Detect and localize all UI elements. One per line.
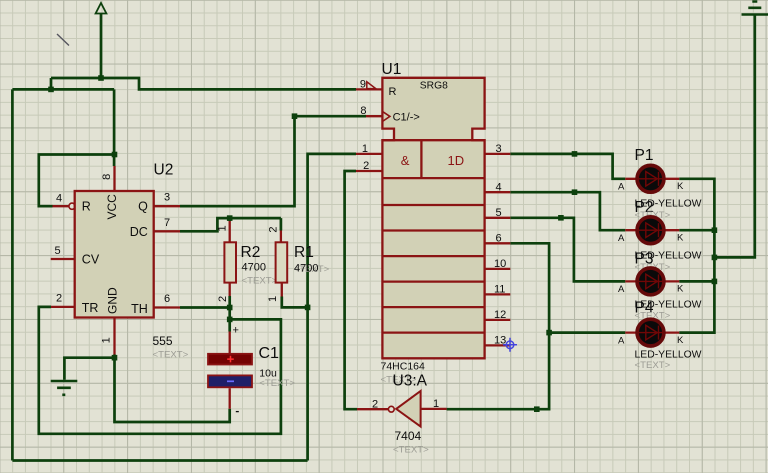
- U1 pin9 edge triangle: [367, 82, 376, 89]
- wire U1 pin5 to LED3 anode: [510, 218, 625, 282]
- wire to 555 pin4 reset: [39, 155, 115, 207]
- svg-text:R2: R2: [241, 244, 261, 261]
- svg-text:7404: 7404: [395, 429, 422, 443]
- wire inverter output to U1 pin2: [345, 171, 357, 409]
- U1 pin numbers: [360, 79, 506, 347]
- wire R2 bottom to C1 top: [228, 308, 231, 332]
- svg-text:2: 2: [268, 226, 280, 232]
- svg-text:A: A: [618, 335, 625, 346]
- svg-text:U3:A: U3:A: [393, 373, 428, 390]
- LED1 body: [637, 165, 664, 192]
- C1 plus plate: [208, 354, 252, 365]
- svg-text:K: K: [677, 232, 684, 243]
- 555 pin numbers: [55, 174, 171, 344]
- svg-text:CV: CV: [82, 253, 100, 267]
- svg-text:R1: R1: [294, 244, 314, 261]
- svg-text:4700: 4700: [294, 263, 318, 275]
- wire left +V rail down: [11, 89, 14, 460]
- svg-text:5: 5: [55, 245, 61, 257]
- LED1 pins: [625, 178, 679, 180]
- svg-text:2: 2: [56, 293, 62, 305]
- wire TH node to TR loop: [39, 307, 281, 434]
- svg-text:C1/->: C1/->: [393, 112, 420, 124]
- 555 pin stubs: [51, 166, 180, 355]
- U3 input stub: [421, 408, 447, 410]
- svg-text:TR: TR: [82, 301, 99, 315]
- no-connect tick mark: [57, 34, 69, 46]
- R2 body: [224, 242, 236, 282]
- wire cathode rail to top ground: [714, 15, 754, 258]
- U1 maroon labels: [389, 81, 449, 124]
- wire 555 GND pin to ground: [64, 355, 114, 380]
- R1 pins: [280, 231, 283, 297]
- ground bottom left: [51, 380, 78, 395]
- LED2 body: [637, 217, 664, 244]
- LED3 pins: [625, 280, 679, 282]
- svg-text:LED-YELLOW: LED-YELLOW: [635, 350, 702, 361]
- U3 triangle: [396, 391, 420, 427]
- svg-text:U2: U2: [154, 162, 174, 179]
- svg-text:1: 1: [362, 143, 368, 155]
- svg-text:K: K: [677, 181, 684, 192]
- wire VCC left branch: [12, 78, 114, 89]
- U3 output stub: [357, 408, 388, 410]
- svg-text:11: 11: [494, 284, 505, 296]
- LED3 body: [637, 268, 664, 295]
- svg-text:6: 6: [164, 293, 170, 305]
- svg-text:A: A: [618, 284, 625, 295]
- wire C1 bottom to GND net: [115, 358, 230, 422]
- svg-text:2: 2: [363, 160, 369, 172]
- wire LED2 cathode: [679, 229, 714, 232]
- svg-text:A: A: [618, 182, 625, 193]
- svg-text:&: &: [401, 153, 410, 168]
- wire VCC to 555 pin8: [113, 89, 116, 166]
- svg-text:R: R: [389, 86, 397, 98]
- svg-text:VCC: VCC: [105, 194, 119, 220]
- wire R1 top pin join: [280, 218, 283, 230]
- wire R2 top pin join: [228, 218, 231, 221]
- wire U1 pin4 to LED2 anode: [510, 192, 625, 230]
- wire LED3 cathode: [679, 280, 714, 283]
- svg-text:<TEXT>: <TEXT>: [259, 378, 295, 389]
- svg-text:Q: Q: [138, 200, 148, 214]
- svg-text:SRG8: SRG8: [420, 81, 448, 92]
- svg-text:1: 1: [101, 337, 113, 343]
- wire TH pin6 to R2 bottom: [180, 296, 230, 308]
- power arrow stem: [100, 14, 103, 79]
- svg-text:4: 4: [56, 192, 62, 204]
- svg-text:8: 8: [101, 174, 113, 180]
- svg-text:U1: U1: [382, 61, 402, 78]
- svg-text:6: 6: [496, 233, 502, 245]
- power symbol arrow: [96, 3, 107, 14]
- wire U1 pin3 to LED1 anode: [510, 154, 625, 179]
- svg-text:3: 3: [164, 192, 170, 204]
- wire U1 pin6 down to LED4/inverter: [447, 243, 549, 409]
- ground top right: [742, 2, 768, 15]
- svg-text:10: 10: [494, 258, 506, 270]
- svg-text:1: 1: [433, 398, 439, 410]
- svg-text:7: 7: [164, 217, 170, 229]
- svg-text:8: 8: [360, 105, 366, 117]
- svg-text:K: K: [677, 284, 684, 295]
- U1 pin stubs left: [356, 89, 510, 345]
- svg-text:GND: GND: [106, 287, 120, 314]
- R2 pins: [229, 221, 231, 296]
- svg-text:<TEXT>: <TEXT>: [635, 360, 671, 371]
- svg-text:555: 555: [153, 334, 173, 348]
- svg-text:<TEXT>: <TEXT>: [153, 350, 189, 361]
- svg-text:9: 9: [360, 79, 366, 91]
- svg-text:2: 2: [217, 296, 229, 302]
- R1 body: [276, 242, 288, 282]
- svg-text:1: 1: [217, 225, 229, 231]
- 555 pin4 inversion bubble: [69, 203, 75, 209]
- U1 body outline: [382, 78, 484, 359]
- svg-text:<TEXT>: <TEXT>: [242, 276, 278, 287]
- svg-text:3: 3: [496, 143, 502, 155]
- wire bottom +V rail: [12, 459, 307, 462]
- svg-text:C1: C1: [259, 345, 280, 362]
- 555 body: [75, 191, 154, 318]
- svg-text:+: +: [233, 324, 239, 336]
- svg-text:<TEXT>: <TEXT>: [393, 445, 429, 456]
- cursor crosshair: [503, 338, 517, 352]
- svg-text:1: 1: [267, 296, 279, 302]
- C1 minus plate: [208, 375, 252, 387]
- svg-text:74HC164: 74HC164: [381, 361, 426, 373]
- svg-text:2: 2: [372, 399, 378, 411]
- LED4 pins: [625, 331, 679, 333]
- svg-text:5: 5: [496, 207, 502, 219]
- wire DC pin7 to resistor tops: [180, 218, 281, 231]
- svg-text:4: 4: [496, 182, 502, 194]
- svg-text:12: 12: [494, 309, 506, 321]
- C1 pins: [229, 332, 231, 409]
- wire LED1 cathode to rail: [679, 179, 714, 333]
- svg-text:A: A: [618, 233, 625, 244]
- wire R1 bottom to +V rail: [282, 297, 308, 308]
- svg-text:TH: TH: [131, 302, 148, 316]
- U3 bubble: [388, 406, 394, 412]
- wire Q out to clock: [180, 116, 366, 206]
- svg-text:4700: 4700: [242, 262, 266, 274]
- 555 pin names: [82, 194, 148, 316]
- svg-text:R: R: [82, 200, 91, 214]
- wire to LED4 anode: [549, 331, 625, 334]
- wire A-input rail up to U1 pin1: [308, 154, 356, 461]
- svg-text:K: K: [677, 335, 684, 346]
- LED4 body: [637, 319, 664, 346]
- svg-text:1D: 1D: [448, 153, 465, 168]
- U1 internal dividers: [382, 140, 484, 332]
- LED2 pins: [625, 229, 679, 231]
- U1 clock triangle: [382, 111, 390, 121]
- svg-text:P1: P1: [635, 147, 654, 164]
- wire VCC top rail: [51, 78, 356, 89]
- svg-text:DC: DC: [130, 225, 148, 239]
